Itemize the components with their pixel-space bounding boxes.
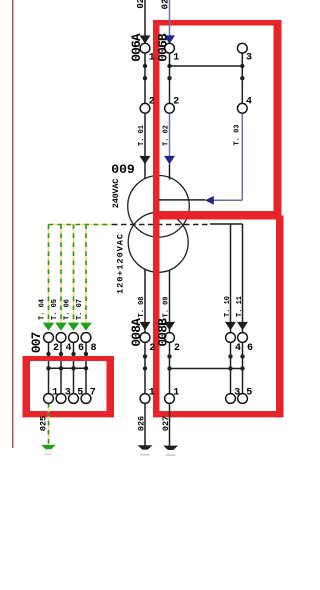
svg-text:2: 2 [53, 343, 59, 354]
svg-text:6: 6 [247, 343, 253, 354]
svg-text:3: 3 [246, 52, 252, 63]
svg-text:026: 026 [136, 416, 146, 431]
svg-text:1: 1 [173, 388, 179, 399]
svg-text:007: 007 [29, 332, 44, 353]
svg-text:027: 027 [160, 0, 170, 9]
svg-text:009: 009 [111, 162, 135, 177]
svg-text:008B: 008B [155, 318, 170, 347]
svg-text:1: 1 [149, 52, 155, 63]
svg-text:2: 2 [173, 97, 179, 108]
svg-text:240VAC: 240VAC [111, 179, 121, 209]
svg-text:2: 2 [150, 343, 156, 354]
svg-text:027: 027 [161, 416, 171, 431]
svg-text:3: 3 [234, 388, 240, 399]
svg-text:T. 10: T. 10 [224, 296, 232, 317]
svg-text:8: 8 [91, 343, 97, 354]
svg-text:1: 1 [149, 388, 155, 399]
svg-text:5: 5 [77, 388, 83, 399]
svg-text:T. 09: T. 09 [163, 296, 171, 317]
svg-text:T. 06: T. 06 [64, 299, 72, 320]
svg-text:4: 4 [66, 343, 72, 354]
svg-text:006B: 006B [155, 33, 170, 62]
svg-text:T. 11: T. 11 [236, 296, 244, 317]
svg-text:3: 3 [65, 388, 71, 399]
svg-text:006A: 006A [129, 33, 144, 62]
svg-text:T. 07: T. 07 [76, 299, 84, 320]
svg-text:025: 025 [136, 0, 146, 9]
svg-text:1: 1 [173, 52, 179, 63]
svg-text:7: 7 [90, 388, 96, 399]
svg-text:1: 1 [52, 388, 58, 399]
svg-text:T. 08: T. 08 [138, 296, 146, 317]
svg-text:120+120VAC: 120+120VAC [115, 233, 125, 294]
svg-text:2: 2 [174, 343, 180, 354]
svg-text:4: 4 [235, 343, 241, 354]
svg-text:5: 5 [246, 388, 252, 399]
svg-text:2: 2 [149, 97, 155, 108]
svg-text:6: 6 [78, 343, 84, 354]
svg-text:025: 025 [38, 416, 48, 431]
svg-text:T. 03: T. 03 [234, 124, 242, 145]
svg-text:T. 05: T. 05 [51, 299, 59, 320]
svg-text:T. 04: T. 04 [39, 299, 47, 320]
svg-text:T. 02: T. 02 [163, 125, 171, 146]
svg-text:008A: 008A [129, 318, 144, 347]
svg-text:T. 01: T. 01 [138, 125, 146, 146]
svg-text:4: 4 [246, 97, 252, 108]
